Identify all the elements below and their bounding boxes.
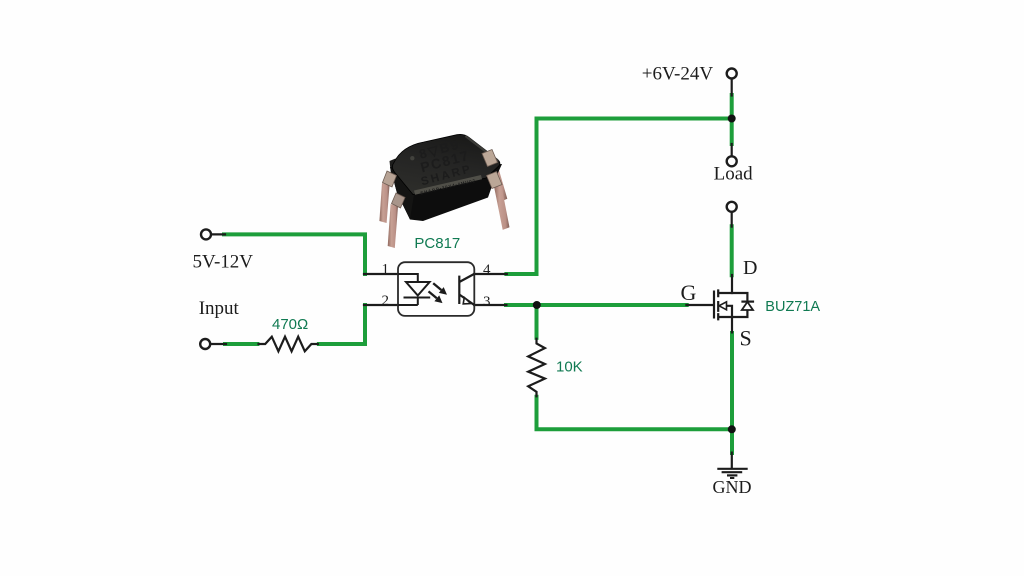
wire terminal B stub — [211, 343, 227, 345]
node junction source/bottom rail — [728, 425, 736, 433]
svg-text:PC817: PC817 — [414, 235, 460, 252]
LED light arrows — [429, 283, 448, 303]
svg-text:Load: Load — [714, 164, 754, 185]
optocoupler U1 PC817 box — [398, 262, 474, 316]
wire pin2 lead — [364, 304, 398, 306]
wire gate lead — [686, 304, 713, 306]
photo of PC817 chip — [379, 134, 509, 248]
svg-text:Input: Input — [199, 298, 240, 319]
source connection — [718, 310, 747, 317]
wire junction down to 10K — [535, 305, 539, 338]
node junction supply rail — [728, 115, 736, 123]
terminal load top — [727, 156, 737, 166]
wire pin1 lead — [364, 273, 398, 275]
wire load bottom to drain — [730, 226, 734, 275]
wire supply terminal stub — [731, 79, 733, 96]
wire terminal A stub — [212, 233, 226, 235]
svg-text:2: 2 — [382, 293, 390, 309]
chip leg pin2 strip (lower left) — [388, 204, 398, 248]
resistor R2 10K — [528, 338, 545, 398]
svg-text:3: 3 — [483, 294, 491, 310]
chip leg pin3 strip (lower right) — [494, 183, 510, 230]
wire ground stub — [731, 453, 733, 468]
chip chamfer band with micro text — [414, 175, 482, 195]
channel segments — [717, 289, 719, 320]
chip leg pin3 shoulder — [487, 172, 503, 189]
svg-text:+6V-24V: +6V-24V — [642, 64, 714, 85]
svg-text:BUZ71A: BUZ71A — [765, 299, 820, 315]
svg-text:5V-12V: 5V-12V — [193, 252, 254, 273]
resistor R1 470ohm — [257, 337, 319, 352]
wire source down to ground — [730, 333, 734, 453]
gate bar — [713, 291, 715, 319]
svg-text:S: S — [740, 326, 752, 351]
chip pin1 dimple — [410, 156, 414, 160]
svg-text:GND: GND — [713, 477, 752, 497]
wire resistor to pin2 — [319, 305, 365, 344]
wire: input top rail green — [224, 95, 732, 453]
source down to S — [731, 317, 733, 334]
terminal Input — [200, 339, 210, 349]
wire top input — [224, 234, 365, 274]
wire supply junction to load top — [730, 119, 734, 145]
wire drain stub — [731, 275, 733, 293]
chip left edge mold bump — [390, 159, 398, 175]
svg-text:470Ω: 470Ω — [272, 316, 308, 333]
chip markings — [412, 135, 474, 188]
body arrow — [726, 306, 733, 317]
chip leg pin4 strip (upper right) — [490, 162, 508, 202]
body diode — [741, 301, 754, 303]
svg-text:D: D — [743, 257, 757, 279]
node junction pin3/gate/10K — [533, 301, 541, 309]
svg-text:1: 1 — [382, 262, 390, 278]
chip leg pin1 strip (upper left) — [379, 183, 389, 223]
chip leg pin1 shoulder — [383, 171, 397, 187]
wire load top stub — [731, 144, 733, 156]
wire top supply rail — [537, 95, 732, 119]
wire pin4 to supply rail — [506, 119, 536, 275]
svg-text:4: 4 — [483, 262, 491, 278]
ground — [717, 469, 747, 478]
terminal +6V-24V — [727, 69, 737, 79]
LED D1 inside optocoupler — [398, 274, 430, 305]
svg-text:10K: 10K — [556, 359, 583, 376]
wire bottom input to resistor — [225, 342, 257, 346]
terminal load bottom — [727, 202, 737, 212]
chip body top face — [392, 134, 499, 194]
wire pin3 lead — [474, 304, 506, 306]
chip left end face — [390, 167, 414, 220]
wire pin4 lead — [474, 273, 507, 275]
terminal 5V-12V — [201, 229, 211, 239]
wire pin3 to gate junction — [506, 303, 687, 307]
phototransistor Q1 inside optocoupler — [459, 274, 474, 305]
chip body side mass — [390, 164, 502, 221]
transistor Q2 BUZ71A mosfet — [714, 289, 754, 333]
svg-text:G: G — [681, 280, 697, 305]
wire 10K to bottom rail — [537, 397, 732, 430]
chip leg pin2 shoulder — [392, 193, 406, 208]
drain connection — [718, 293, 747, 302]
chip leg pin4 shoulder — [482, 150, 498, 167]
chip top-right edge highlight — [466, 137, 498, 161]
wire load bottom stub — [731, 212, 733, 227]
